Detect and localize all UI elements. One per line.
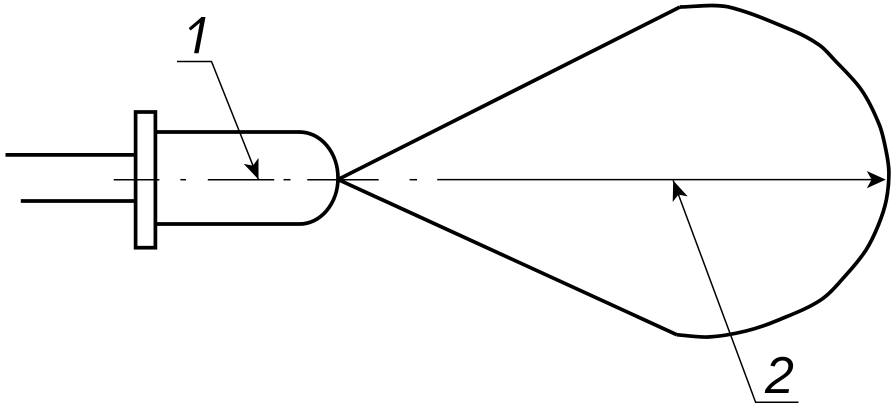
svg-text:2: 2 [764, 347, 794, 405]
